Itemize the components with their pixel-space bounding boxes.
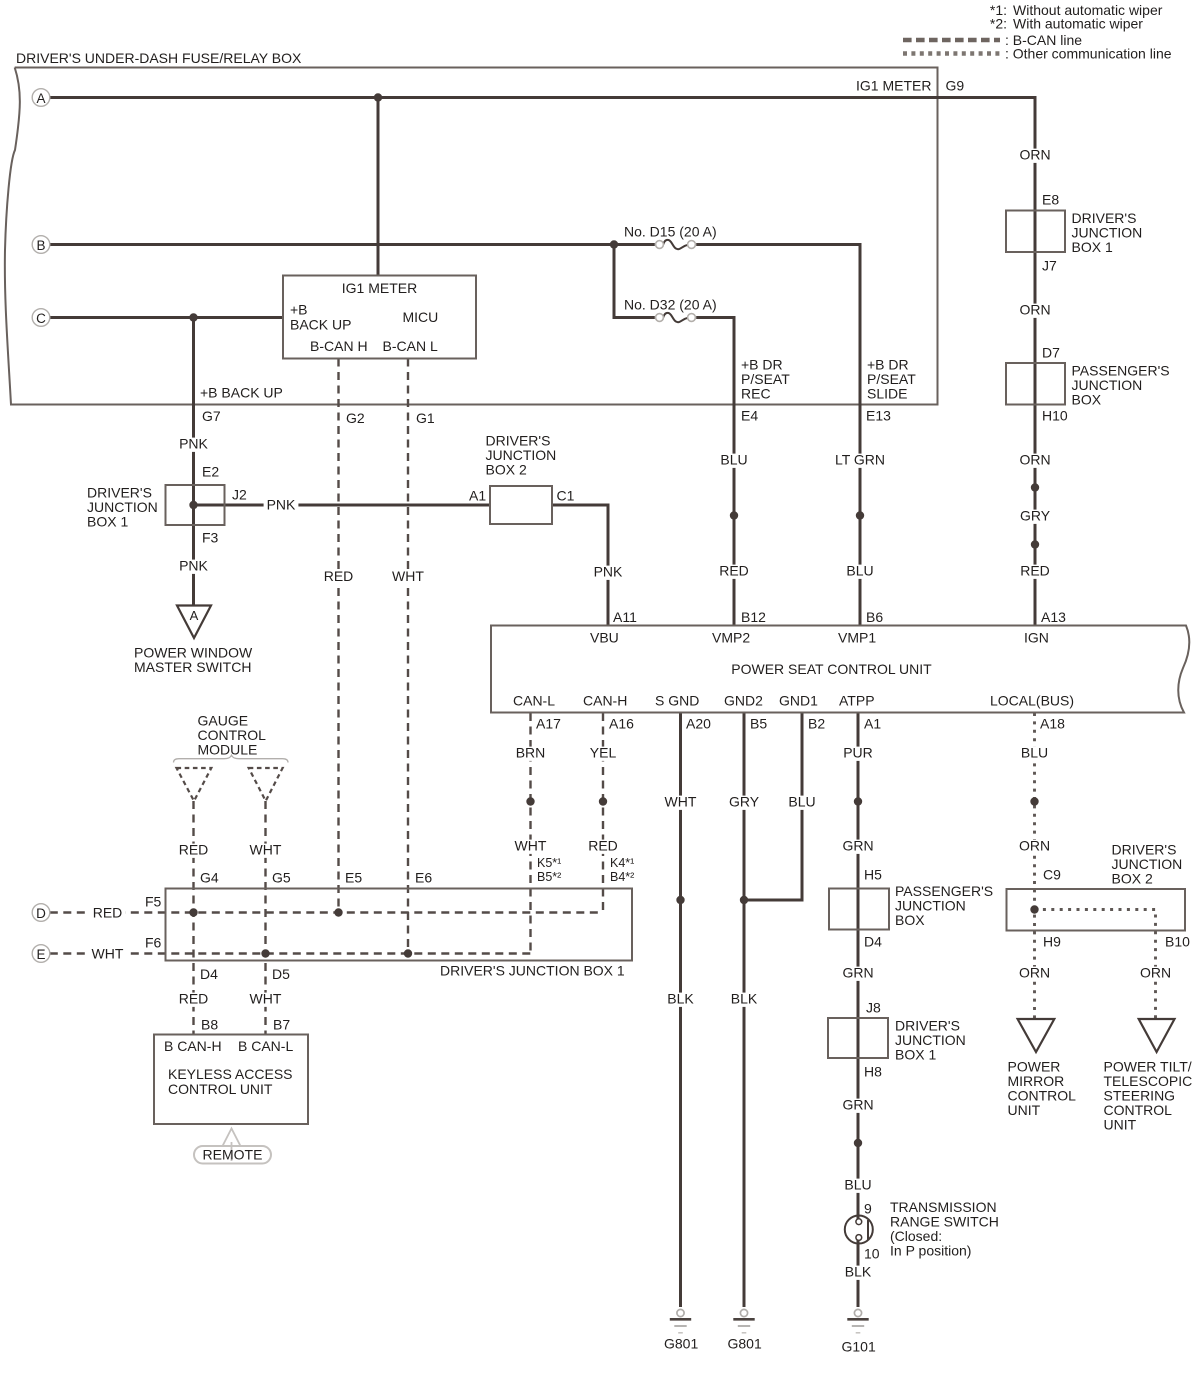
power seat control unit box (wavy right edge) — [491, 626, 1189, 713]
svg-text:+B BACK UP: +B BACK UP — [200, 385, 283, 401]
wire label BLU — [717, 454, 750, 468]
node D — [32, 904, 50, 922]
svg-text:B12: B12 — [741, 609, 766, 625]
svg-text:A1: A1 — [864, 716, 881, 732]
svg-text:H8: H8 — [864, 1064, 882, 1080]
svg-text:B-CAN H: B-CAN H — [310, 338, 368, 354]
IG1 METER unit box — [283, 276, 476, 359]
svg-text:BRN: BRN — [516, 745, 546, 761]
svg-text:WHT: WHT — [515, 838, 547, 854]
svg-text:IG1 METER: IG1 METER — [342, 280, 417, 296]
svg-text:B8: B8 — [201, 1017, 218, 1033]
junction on wire C — [189, 313, 197, 321]
svg-text:GND2: GND2 — [724, 693, 763, 709]
splice CAN-L — [526, 797, 534, 805]
wire label GRY — [1017, 510, 1053, 524]
wire CAN-H A16 YEL/RED — [602, 713, 604, 913]
svg-text:A20: A20 — [686, 716, 711, 732]
wire label WHT — [389, 570, 427, 584]
wire GND1 B2 joining B5 — [744, 713, 802, 900]
splice on IGN wire — [1031, 540, 1039, 548]
driver's junction box 2 (C9/H9/B10) — [1007, 889, 1186, 931]
wire label GRY — [726, 796, 762, 810]
svg-text:WHT: WHT — [665, 794, 697, 810]
wire C1 PNK to A11 VBU — [552, 505, 608, 626]
svg-text:G5: G5 — [272, 870, 291, 886]
svg-text:ORN: ORN — [1019, 838, 1050, 854]
svg-text:+B: +B — [290, 302, 308, 318]
svg-text:ORN: ORN — [1019, 965, 1050, 981]
svg-text:ORN: ORN — [1019, 302, 1050, 318]
svg-text:RED: RED — [1020, 563, 1050, 579]
svg-text:MASTER SWITCH: MASTER SWITCH — [134, 659, 251, 675]
svg-text:WHT: WHT — [250, 991, 282, 1007]
svg-text:WHT: WHT — [392, 568, 424, 584]
svg-text:A17: A17 — [536, 716, 561, 732]
svg-text:A: A — [190, 608, 199, 623]
wire A / IG1 METER G9 to A13 IGN chain — [50, 98, 1035, 626]
wire label ORN — [1016, 840, 1053, 854]
wire B left segment to fuse D15 — [50, 243, 655, 246]
svg-text:C1: C1 — [557, 488, 575, 504]
splice on ATPP wire — [854, 1139, 862, 1147]
wire label RED — [585, 840, 621, 854]
svg-text:B10: B10 — [1165, 934, 1190, 950]
svg-text:B6: B6 — [866, 609, 883, 625]
svg-text:BOX 1: BOX 1 — [87, 514, 128, 530]
junction on wire A — [374, 93, 382, 101]
svg-text:In P position): In P position) — [890, 1243, 971, 1259]
wire G5 WHT to keyless B7 — [264, 801, 266, 1035]
svg-text:GRY: GRY — [729, 794, 760, 810]
splice on IGN wire — [1031, 483, 1039, 491]
remote arrow — [223, 1129, 241, 1147]
svg-text:B5: B5 — [750, 716, 767, 732]
junction G4/D bus — [189, 908, 197, 916]
svg-text:ORN: ORN — [1140, 965, 1171, 981]
svg-text:D4: D4 — [200, 966, 218, 982]
svg-text:BLK: BLK — [731, 991, 758, 1007]
svg-text:A18: A18 — [1040, 716, 1065, 732]
svg-text:UNIT: UNIT — [1104, 1117, 1137, 1133]
driver's under-dash fuse/relay box outline (wavy left edge) — [5, 68, 938, 405]
junction E5/D bus — [334, 908, 342, 916]
svg-text:C9: C9 — [1043, 867, 1061, 883]
wire label GRN — [839, 840, 876, 854]
svg-text:G801: G801 — [664, 1336, 698, 1352]
svg-text:J7: J7 — [1042, 258, 1057, 274]
wire label GRN — [839, 967, 876, 981]
wire label RED — [716, 565, 752, 579]
svg-text:PNK: PNK — [594, 564, 623, 580]
wire label RED — [1017, 565, 1053, 579]
wire from fuse D32 to E4 / B12 VMP2 — [696, 318, 734, 626]
svg-text:S GND: S GND — [655, 693, 699, 709]
svg-text:DRIVER'S JUNCTION BOX 1: DRIVER'S JUNCTION BOX 1 — [440, 963, 625, 979]
svg-text:RED: RED — [719, 563, 749, 579]
splice on VMP1 wire — [856, 511, 864, 519]
svg-text:GRY: GRY — [1020, 508, 1051, 524]
wire label RED — [176, 844, 212, 858]
svg-text:PUR: PUR — [843, 745, 873, 761]
wire +B BACK UP G7 to power window master switch — [192, 318, 195, 605]
junction E6/E bus — [404, 949, 412, 957]
svg-text:WHT: WHT — [92, 946, 124, 962]
wire ATPP A1 to transmission range switch — [857, 713, 860, 1219]
driver's junction box 1 (E2/J2/F3) — [166, 485, 225, 525]
svg-text:10: 10 — [864, 1246, 880, 1262]
svg-text:E6: E6 — [415, 870, 432, 886]
wire G4 RED to keyless B8 — [192, 801, 194, 1035]
svg-text:K5*¹: K5*¹ — [537, 856, 561, 870]
svg-text:E2: E2 — [202, 464, 219, 480]
svg-text:G4: G4 — [200, 870, 219, 886]
wire label WHT — [247, 993, 285, 1007]
wire IG1 METER supply drop — [377, 98, 380, 276]
svg-text:CAN-H: CAN-H — [583, 693, 627, 709]
node A — [32, 89, 50, 107]
driver's junction box 2 (A1/C1) — [490, 486, 552, 524]
wire label LT GRN — [832, 454, 888, 468]
svg-text:F5: F5 — [145, 894, 162, 910]
svg-text:D7: D7 — [1042, 345, 1060, 361]
svg-text:: Other communication line: : Other communication line — [1005, 46, 1172, 62]
svg-text:A16: A16 — [609, 716, 634, 732]
svg-text:BOX 1: BOX 1 — [895, 1047, 936, 1063]
svg-text:MICU: MICU — [403, 309, 439, 325]
svg-text:RED: RED — [179, 842, 209, 858]
splice ATPP — [854, 797, 862, 805]
passenger's junction box (H5/D4) — [829, 889, 889, 930]
svg-text:E5: E5 — [345, 870, 362, 886]
wire label WHT — [247, 844, 285, 858]
svg-text:GRN: GRN — [842, 1097, 873, 1113]
svg-text:A11: A11 — [613, 609, 637, 625]
svg-text:E4: E4 — [741, 408, 758, 424]
svg-text:RED: RED — [588, 838, 618, 854]
svg-text:B CAN-L: B CAN-L — [238, 1038, 293, 1054]
svg-text:GRN: GRN — [842, 965, 873, 981]
svg-text:BLU: BLU — [846, 563, 873, 579]
svg-text:BLU: BLU — [788, 794, 815, 810]
wire label PNK — [176, 438, 211, 452]
wire label WHT — [89, 948, 127, 962]
svg-text:GND1: GND1 — [779, 693, 818, 709]
node E — [32, 945, 50, 963]
svg-text:CONTROL UNIT: CONTROL UNIT — [168, 1081, 273, 1097]
svg-text:H9: H9 — [1043, 934, 1061, 950]
wire from fuse D15 to E13 / B6 VMP1 — [696, 245, 860, 626]
wire label PNK — [591, 566, 626, 580]
wire label ORN — [1016, 967, 1053, 981]
power tilt/telescopic arrow — [1139, 1019, 1175, 1052]
wire label BLU — [841, 1179, 874, 1193]
fuse No. D32 (20 A) — [663, 313, 687, 322]
node B — [32, 236, 50, 254]
wire LOCAL(BUS) A18 to power mirror — [1033, 713, 1036, 1018]
svg-text:VBU: VBU — [590, 630, 619, 646]
ground G801 — [677, 1309, 684, 1316]
svg-text:LT GRN: LT GRN — [835, 452, 885, 468]
ground G101 — [854, 1309, 861, 1316]
svg-text:B: B — [36, 238, 45, 253]
svg-text:YEL: YEL — [590, 745, 617, 761]
wire label YEL — [587, 747, 620, 761]
svg-text:BLU: BLU — [720, 452, 747, 468]
svg-text:G801: G801 — [728, 1336, 762, 1352]
wire label GRN — [839, 1099, 876, 1113]
splice CAN-H — [599, 797, 607, 805]
splice on S GND wire — [676, 896, 684, 904]
svg-text:A1: A1 — [469, 488, 486, 504]
svg-text:REMOTE: REMOTE — [203, 1147, 263, 1163]
svg-text:B2: B2 — [808, 716, 825, 732]
svg-text:PNK: PNK — [179, 436, 208, 452]
svg-text:REC: REC — [741, 386, 771, 402]
svg-text:BOX: BOX — [1072, 392, 1102, 408]
junction GND2/GND1 — [740, 896, 748, 904]
wire label BLU — [1018, 747, 1051, 761]
power mirror control unit arrow — [1018, 1019, 1055, 1052]
wire label PNK — [176, 560, 211, 574]
legend other-communication dotted sample — [903, 51, 1000, 55]
svg-text:*2:: *2: — [990, 16, 1007, 32]
wire label PNK — [264, 499, 299, 513]
svg-text:UNIT: UNIT — [1008, 1102, 1041, 1118]
svg-text:RED: RED — [179, 991, 209, 1007]
svg-text:A13: A13 — [1041, 609, 1066, 625]
svg-text:RED: RED — [324, 568, 354, 584]
svg-text:G7: G7 — [202, 408, 221, 424]
svg-text:With automatic wiper: With automatic wiper — [1013, 16, 1143, 32]
svg-text:B5*²: B5*² — [537, 870, 561, 884]
wire label BLK — [728, 993, 761, 1007]
legend B-CAN dashed sample — [903, 38, 1000, 43]
svg-text:VMP2: VMP2 — [712, 630, 750, 646]
wire transmission range switch to G101 — [857, 1240, 860, 1307]
transmission range switch — [845, 1216, 873, 1244]
svg-text:J8: J8 — [866, 1000, 881, 1016]
driver's junction box 1 (bus box) — [166, 889, 633, 961]
junction G5/E bus — [261, 949, 269, 957]
wire label BLK — [842, 1266, 875, 1280]
junction J2 inside box — [189, 501, 197, 509]
svg-text:A: A — [36, 91, 45, 106]
svg-text:PNK: PNK — [267, 497, 296, 513]
svg-text:RED: RED — [93, 905, 123, 921]
svg-text:F3: F3 — [202, 530, 219, 546]
wire branch B10 to power tilt unit — [1035, 910, 1156, 1019]
svg-text:C: C — [36, 311, 46, 326]
svg-text:G2: G2 — [346, 410, 365, 426]
svg-text:G9: G9 — [946, 78, 965, 94]
svg-text:BOX 1: BOX 1 — [1072, 239, 1113, 255]
wire branch to fuse D32 — [614, 245, 655, 318]
wire C to IG1 METER +B BACK UP — [50, 316, 283, 319]
wire label RED — [321, 570, 357, 584]
junction on wire B — [610, 240, 618, 248]
svg-text:No. D15 (20 A): No. D15 (20 A) — [624, 224, 717, 240]
svg-text:G101: G101 — [842, 1339, 876, 1355]
passenger's junction box (D7/H10) — [1006, 363, 1065, 405]
wire label BLU — [785, 796, 818, 810]
driver's junction box 1 (J8/H8) — [828, 1018, 888, 1058]
svg-text:E: E — [36, 947, 45, 962]
wire label ORN — [1016, 304, 1053, 318]
svg-text:B4*²: B4*² — [610, 870, 634, 884]
svg-text:SLIDE: SLIDE — [867, 386, 907, 402]
wire S GND A20 to G801 — [679, 713, 682, 1307]
svg-text:BOX: BOX — [895, 912, 925, 928]
svg-text:GRN: GRN — [842, 838, 873, 854]
svg-text:BLK: BLK — [845, 1264, 872, 1280]
wire label RED — [176, 993, 212, 1007]
svg-text:No. D32 (20 A): No. D32 (20 A) — [624, 297, 717, 313]
svg-text:BACK UP: BACK UP — [290, 317, 351, 333]
svg-text:K4*¹: K4*¹ — [610, 856, 634, 870]
svg-text:E13: E13 — [866, 408, 891, 424]
wire D RED B-CAN bus — [50, 911, 603, 913]
svg-text:D4: D4 — [864, 934, 882, 950]
svg-text:ATPP: ATPP — [839, 693, 875, 709]
wire label ORN — [1016, 149, 1053, 163]
gauge control module arrow (dashed) — [177, 768, 212, 801]
svg-text:ORN: ORN — [1019, 452, 1050, 468]
wire label WHT — [662, 796, 700, 810]
svg-text:LOCAL(BUS): LOCAL(BUS) — [990, 693, 1074, 709]
gauge control module brace — [174, 755, 289, 762]
svg-text:D: D — [36, 906, 46, 921]
svg-text:VMP1: VMP1 — [838, 630, 876, 646]
svg-text:H5: H5 — [864, 867, 882, 883]
svg-text:CAN-L: CAN-L — [513, 693, 555, 709]
svg-text:ORN: ORN — [1019, 147, 1050, 163]
keyless access control unit box — [154, 1035, 308, 1125]
svg-text:DRIVER'S UNDER-DASH FUSE/RELAY: DRIVER'S UNDER-DASH FUSE/RELAY BOX — [16, 50, 302, 66]
wire label BLK — [664, 993, 697, 1007]
svg-text:J2: J2 — [232, 487, 247, 503]
svg-text:D5: D5 — [272, 966, 290, 982]
wire GND2 B5 to G801 — [743, 713, 746, 1307]
svg-text:9: 9 — [864, 1201, 872, 1217]
REMOTE stadium — [194, 1146, 271, 1164]
svg-text:F6: F6 — [145, 935, 162, 951]
wire label PUR — [840, 747, 876, 761]
wire J2 PNK to junction box 2 A1 — [194, 504, 491, 507]
svg-text:B7: B7 — [273, 1017, 290, 1033]
wire label BRN — [513, 747, 549, 761]
svg-text:POWER SEAT CONTROL UNIT: POWER SEAT CONTROL UNIT — [731, 661, 932, 677]
svg-text:IGN: IGN — [1024, 630, 1049, 646]
power window master switch arrow A — [177, 606, 211, 639]
svg-text:BLU: BLU — [844, 1177, 871, 1193]
svg-text:H10: H10 — [1042, 408, 1068, 424]
wire label ORN — [1016, 454, 1053, 468]
wire label RED — [90, 907, 126, 921]
fuse No. D15 (20 A) — [663, 240, 687, 249]
svg-text:BLU: BLU — [1021, 745, 1048, 761]
splice on VMP2 wire — [730, 511, 738, 519]
svg-text:G1: G1 — [416, 410, 435, 426]
node C — [32, 309, 50, 327]
junction inside box 2 — [1030, 905, 1038, 913]
svg-text:B CAN-H: B CAN-H — [164, 1038, 222, 1054]
svg-text:E8: E8 — [1042, 192, 1059, 208]
wire label BLU — [843, 565, 876, 579]
svg-text:WHT: WHT — [250, 842, 282, 858]
wire label WHT — [512, 840, 550, 854]
svg-text:BOX 2: BOX 2 — [486, 462, 527, 478]
wire E WHT B-CAN bus — [50, 952, 531, 954]
wire G1 WHT B-CAN to E6 — [407, 359, 409, 954]
gauge control module arrow (dashed) — [249, 768, 283, 801]
wire CAN-L A17 BRN/WHT — [529, 713, 531, 954]
svg-text:IG1 METER: IG1 METER — [856, 78, 931, 94]
svg-text:BLK: BLK — [667, 991, 694, 1007]
svg-text:KEYLESS ACCESS: KEYLESS ACCESS — [168, 1066, 293, 1082]
ground G801 — [740, 1309, 747, 1316]
svg-text:PNK: PNK — [179, 558, 208, 574]
svg-text:MODULE: MODULE — [198, 742, 258, 758]
wire G2 RED B-CAN to E5 — [337, 359, 339, 913]
wire label ORN — [1137, 967, 1174, 981]
svg-text:B-CAN L: B-CAN L — [383, 338, 438, 354]
svg-text:BOX 2: BOX 2 — [1112, 871, 1153, 887]
splice LOCAL(BUS) — [1030, 797, 1038, 805]
driver's junction box 1 (E8/J7) — [1006, 211, 1065, 253]
